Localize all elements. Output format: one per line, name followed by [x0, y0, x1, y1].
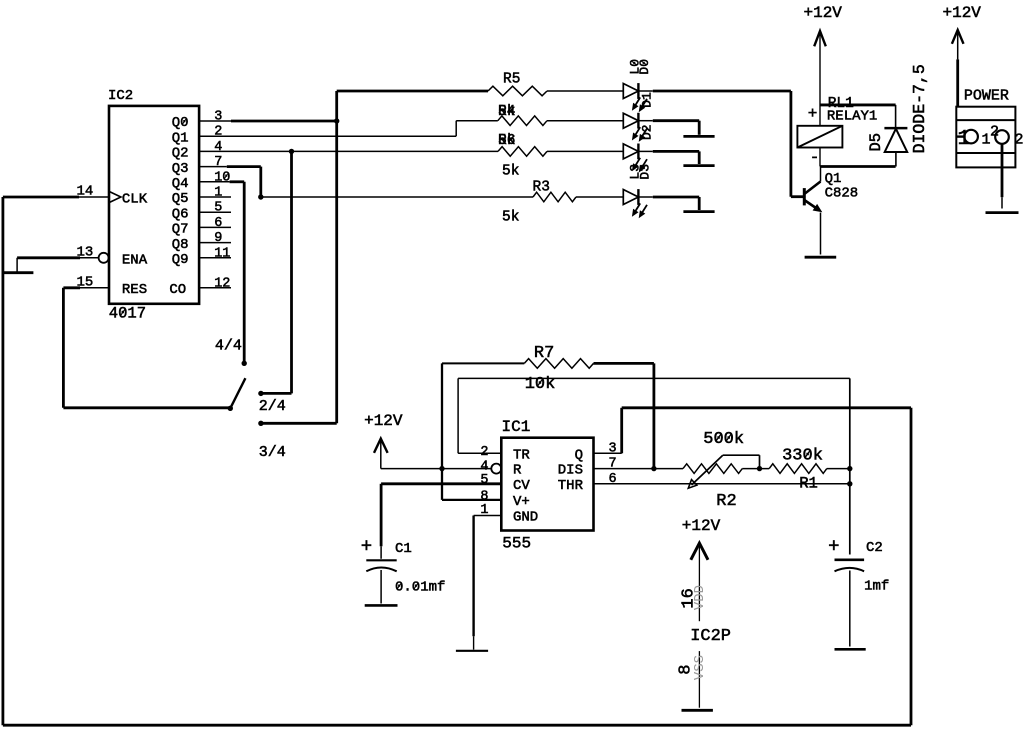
svg-text:-: - — [810, 149, 820, 167]
svg-text:R2: R2 — [716, 492, 736, 511]
svg-text:Q4: Q4 — [172, 176, 189, 192]
svg-text:1: 1 — [957, 128, 970, 151]
svg-text:5: 5 — [214, 201, 222, 216]
svg-text:7: 7 — [214, 155, 222, 170]
svg-text:2: 2 — [990, 124, 999, 141]
svg-text:Q2: Q2 — [172, 146, 189, 162]
svg-text:Q6: Q6 — [172, 206, 189, 222]
svg-text:D2: D2 — [640, 124, 655, 140]
svg-text:C1: C1 — [395, 541, 412, 557]
svg-text:Q0: Q0 — [172, 115, 189, 131]
svg-text:D0: D0 — [637, 59, 652, 75]
svg-text:0.01mf: 0.01mf — [395, 580, 445, 596]
svg-text:2/4: 2/4 — [259, 398, 286, 415]
svg-text:+: + — [361, 536, 372, 558]
svg-text:5k: 5k — [498, 104, 515, 120]
svg-text:10k: 10k — [525, 375, 556, 394]
svg-text:1: 1 — [214, 186, 222, 201]
svg-text:3/4: 3/4 — [259, 444, 286, 461]
svg-text:VDD: VDD — [692, 585, 708, 610]
svg-text:+: + — [828, 536, 839, 558]
svg-text:2: 2 — [214, 125, 222, 140]
svg-text:POWER: POWER — [964, 88, 1009, 105]
svg-text:Q7: Q7 — [172, 222, 189, 238]
svg-text:D1: D1 — [640, 92, 655, 108]
svg-text:6: 6 — [214, 216, 222, 231]
svg-text:555: 555 — [502, 535, 531, 553]
svg-text:Q: Q — [575, 447, 583, 463]
svg-text:4017: 4017 — [109, 305, 146, 323]
svg-text:4/4: 4/4 — [215, 338, 242, 355]
svg-text:9: 9 — [214, 231, 222, 246]
svg-text:C2: C2 — [866, 540, 883, 556]
svg-text:+12V: +12V — [942, 4, 981, 22]
svg-text:Q8: Q8 — [172, 237, 189, 253]
svg-text:Q5: Q5 — [172, 191, 189, 207]
svg-text:ENA: ENA — [122, 252, 148, 268]
svg-text:RES: RES — [122, 282, 147, 298]
svg-text:CLK: CLK — [122, 192, 148, 208]
svg-text:GND: GND — [513, 510, 538, 526]
svg-text:IC2: IC2 — [108, 88, 133, 104]
svg-text:5k: 5k — [502, 210, 519, 226]
svg-text:5: 5 — [480, 473, 488, 488]
svg-text:3: 3 — [214, 110, 222, 125]
svg-text:DIS: DIS — [558, 463, 583, 479]
svg-text:+12V: +12V — [803, 4, 842, 22]
svg-text:4: 4 — [214, 140, 222, 155]
svg-text:+: + — [808, 105, 818, 123]
svg-text:11: 11 — [214, 246, 230, 261]
svg-text:CO: CO — [169, 282, 186, 298]
svg-text:330k: 330k — [782, 447, 823, 466]
svg-text:Q9: Q9 — [172, 252, 189, 268]
svg-text:1mf: 1mf — [864, 578, 889, 594]
svg-text:C828: C828 — [825, 186, 859, 202]
svg-text:5k: 5k — [502, 164, 519, 180]
svg-text:VSS: VSS — [692, 655, 708, 680]
svg-text:+12V: +12V — [682, 517, 721, 535]
svg-text:Q3: Q3 — [172, 161, 189, 177]
svg-text:Q1: Q1 — [172, 130, 189, 146]
svg-text:TR: TR — [513, 447, 530, 463]
svg-text:R: R — [513, 463, 522, 479]
svg-text:IC1: IC1 — [502, 418, 531, 436]
svg-text:2: 2 — [480, 445, 488, 460]
svg-text:R5: R5 — [503, 72, 520, 88]
svg-text:2: 2 — [1014, 132, 1023, 149]
svg-text:CV: CV — [513, 478, 530, 494]
svg-text:DIODE-7,5: DIODE-7,5 — [910, 64, 929, 153]
svg-text:12: 12 — [214, 276, 230, 291]
svg-text:THR: THR — [558, 478, 584, 494]
svg-text:R7: R7 — [534, 344, 554, 363]
svg-text:10: 10 — [214, 170, 230, 185]
svg-text:500k: 500k — [703, 430, 744, 449]
svg-text:+12V: +12V — [364, 412, 403, 430]
svg-text:5k: 5k — [498, 133, 515, 149]
svg-text:V+: V+ — [513, 494, 530, 510]
svg-text:R3: R3 — [533, 180, 550, 196]
svg-text:IC2P: IC2P — [690, 627, 731, 646]
svg-text:RELAY1: RELAY1 — [827, 109, 877, 125]
svg-text:D3: D3 — [637, 164, 652, 180]
svg-text:D5: D5 — [867, 133, 885, 152]
